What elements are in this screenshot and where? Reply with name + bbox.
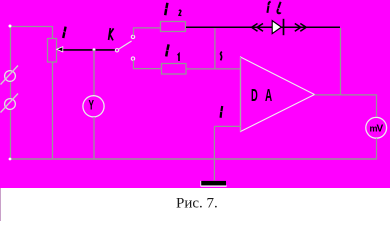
svg-text:Y: Y (89, 98, 95, 113)
label K (switch) (109, 28, 114, 40)
node top-left corner dot (9, 25, 12, 28)
wire to potentiometer top (52, 26, 54, 38)
wire left vertical upper (10, 26, 12, 71)
potentiometer R body (48, 39, 57, 63)
svg-text:D: D (251, 86, 258, 106)
wire op-amp output (315, 94, 378, 96)
ground bar (201, 181, 227, 186)
wire potentiometer bottom to bus (52, 62, 54, 159)
op-amp DA triangle (241, 57, 315, 132)
wire between input terminals (10, 82, 12, 99)
left border tick of caption area (0, 188, 1, 221)
wire top-left horizontal (10, 26, 53, 28)
svg-text:Рис. 7.: Рис. 7. (176, 196, 218, 212)
arrows right (double chevron) (295, 24, 306, 32)
millivoltmeter mV circle (366, 117, 387, 138)
wire lower throw to R1 (134, 60, 162, 68)
node junction dot on wiper line (93, 48, 96, 51)
resistor R2 body (161, 22, 186, 32)
input terminal X1 (circle with slash) (1, 66, 19, 85)
bottom bus wire (10, 158, 377, 160)
svg-text:A: A (265, 86, 272, 106)
wire non-inverting input (214, 125, 240, 127)
switch SA pole (115, 49, 118, 52)
feedback black line (186, 26, 340, 28)
wire R1 right to inverting input (186, 68, 241, 70)
label b (near pot wiper) (63, 27, 65, 38)
diode VD (272, 19, 283, 35)
potentiometer wiper arrow (57, 47, 116, 52)
wire below lower terminal to bus (10, 110, 12, 160)
input terminal X2 (circle with slash) (1, 94, 19, 113)
label R2 above resistor (165, 3, 167, 15)
magenta background panel (0, 0, 390, 188)
label v (non-inv input) (221, 106, 223, 118)
label R1 between resistors (166, 44, 168, 56)
wire millivoltmeter to bus (376, 138, 378, 159)
switch upper throw contact (131, 35, 134, 38)
switch lever (119, 41, 132, 49)
wire feedback down to output (340, 28, 342, 95)
label VD above diode (267, 2, 270, 13)
wire wiper junction down to galvanometer (93, 50, 95, 96)
galvanometer Y circle (83, 96, 104, 117)
arrows left (double chevron) (252, 24, 263, 32)
wire summing node vertical (214, 28, 216, 69)
wire galvanometer bottom to bus (93, 117, 95, 159)
node bus left corner dot (9, 158, 12, 161)
label a (summing node) (221, 52, 222, 61)
resistor R1 body (162, 64, 187, 75)
wire non-inv input down to ground (213, 126, 215, 180)
switch lower throw contact (131, 57, 134, 60)
wire output down to millivoltmeter (376, 95, 378, 118)
wire upper throw to R2 (134, 28, 161, 36)
svg-text:V: V (377, 124, 384, 135)
